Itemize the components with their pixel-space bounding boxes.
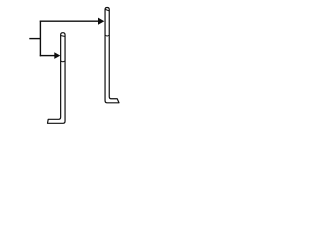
capillary tube left (J-bend, foot to left) [48,33,66,124]
capillary tube right (L-bend, foot to right) [105,8,119,103]
bottom branch wire [40,55,55,57]
pointer tick wire [29,38,40,40]
right tube open-top rim line [106,10,109,11]
pointer bracket vertical wire [39,21,41,57]
left tube open-top rim line [61,35,64,38]
right tube sample level line [106,34,109,37]
arrowhead to right tube [98,18,104,25]
top branch wire [40,20,99,22]
left tube sample level line [61,60,64,63]
arrowhead to left tube [54,52,60,59]
